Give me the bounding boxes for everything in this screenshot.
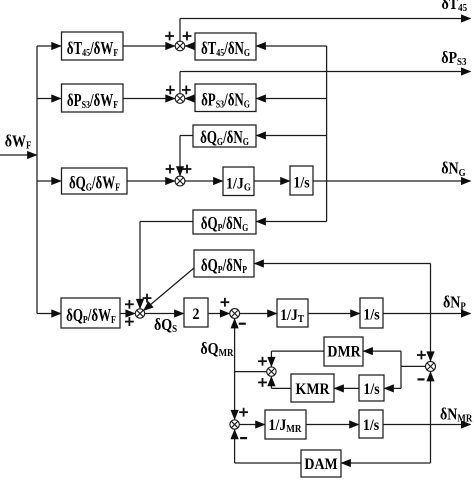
svg-text:δQP/δNG: δQP/δNG (201, 214, 249, 234)
svg-text:1/s: 1/s (293, 175, 309, 192)
svg-text:δPS3: δPS3 (441, 49, 466, 68)
svg-text:δPS3/δWF: δPS3/δWF (67, 91, 118, 111)
svg-text:1/s: 1/s (363, 417, 379, 434)
svg-text:1/JG: 1/JG (226, 175, 251, 193)
svg-text:δT45: δT45 (442, 0, 468, 14)
svg-text:δQG/δNG: δQG/δNG (200, 128, 249, 148)
svg-text:DMR: DMR (327, 344, 360, 361)
svg-text:δQS: δQS (154, 316, 177, 335)
svg-text:1/s: 1/s (363, 381, 379, 398)
svg-text:δT45/δNG: δT45/δNG (201, 39, 251, 59)
svg-text:DAM: DAM (304, 456, 337, 473)
svg-text:δNMR: δNMR (440, 405, 473, 424)
svg-text:KMR: KMR (296, 381, 330, 398)
svg-text:δQP/δNP: δQP/δNP (201, 256, 247, 276)
svg-text:1/JT: 1/JT (280, 307, 304, 325)
svg-text:2: 2 (193, 306, 200, 323)
svg-text:δT45/δWF: δT45/δWF (67, 39, 119, 59)
svg-text:δNP: δNP (443, 293, 466, 312)
svg-text:δWF: δWF (5, 132, 32, 151)
svg-text:δNG: δNG (441, 160, 466, 179)
svg-text:δQP/δWF: δQP/δWF (66, 306, 116, 326)
svg-text:1/s: 1/s (363, 307, 379, 324)
svg-text:δPS3/δNG: δPS3/δNG (201, 91, 250, 111)
svg-text:δQMR: δQMR (200, 340, 234, 359)
svg-text:δQG/δWF: δQG/δWF (69, 174, 120, 194)
svg-text:1/JMR: 1/JMR (269, 417, 303, 435)
